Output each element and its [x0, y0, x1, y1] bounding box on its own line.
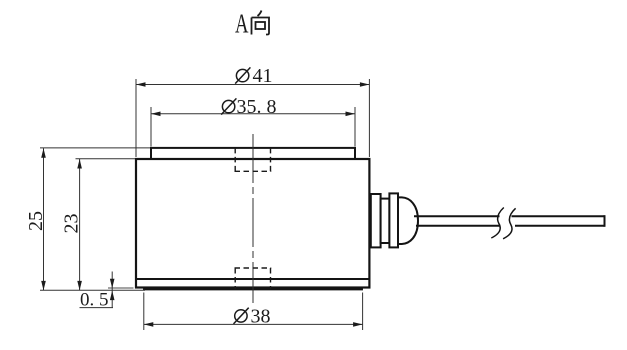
node Ø41 label [235, 65, 272, 87]
node cable gland ring 3 [389, 193, 398, 247]
wire cable end cap [604, 215, 606, 227]
node cable gland dome [398, 197, 418, 244]
wire: Ø35.8 left extension line [150, 107, 152, 147]
svg-text:41: 41 [253, 65, 273, 87]
node Ø38 label [234, 306, 271, 328]
wire cable segment right [512, 215, 605, 217]
node bottom hidden hole (dashed) [235, 268, 272, 290]
wire: Ø41 dimension line [136, 84, 369, 86]
node main body Ø41 [136, 159, 369, 288]
wire 25 top extension line [40, 147, 150, 149]
title A向 [235, 9, 269, 39]
node Ø35.8 label [221, 96, 276, 118]
wire: Ø41 right extension line [368, 79, 370, 157]
node cable gland ring 2 [381, 199, 390, 243]
svg-text:38: 38 [251, 306, 271, 328]
wire 0.5 shelf [80, 307, 114, 309]
wire cable segment left [414, 215, 500, 217]
node cable gland ring 1 [371, 194, 381, 247]
wire 0.5 leader vertical [111, 272, 113, 308]
wire: Ø35.8 right extension line [354, 107, 356, 147]
wire 25 dimension line [43, 148, 45, 290]
wire bottom shared extension line [40, 289, 145, 291]
node top hidden hole (dashed) [235, 148, 272, 171]
svg-text:23: 23 [61, 214, 83, 234]
svg-text:A: A [235, 9, 249, 39]
wire Ø38 dimension line [144, 323, 363, 325]
wire 23 top extension line [76, 158, 136, 160]
node centerline [252, 134, 254, 303]
wire Ø38 left extension line [143, 293, 145, 331]
wire body inner bottom line [136, 278, 369, 280]
wire: Ø35.8 dimension line [151, 113, 355, 115]
node bottom lip Ø38 [144, 288, 362, 290]
svg-text:25: 25 [25, 211, 47, 231]
node top plate Ø35.8 [151, 148, 355, 159]
wire: Ø41 left extension line [135, 79, 137, 157]
wire Ø38 right extension line [362, 293, 364, 331]
node cable break mark [491, 208, 515, 239]
wire 23 dimension line [79, 159, 81, 290]
wire 0.5 extension line [108, 287, 134, 289]
svg-text:35. 8: 35. 8 [237, 96, 277, 118]
